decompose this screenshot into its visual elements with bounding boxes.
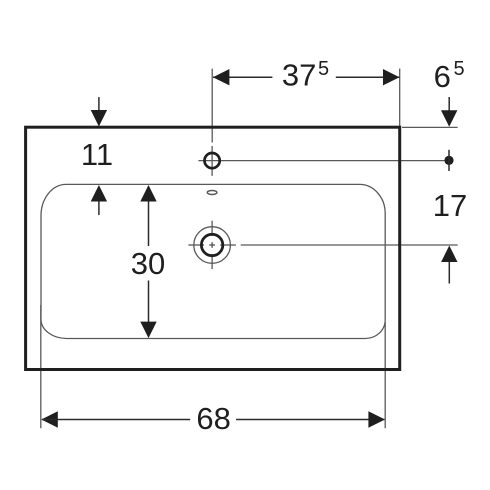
outer rim of washbasin <box>26 127 400 369</box>
dimension 6.5 arrow tail <box>448 97 450 112</box>
dimension 68 left arrowhead <box>41 411 58 427</box>
dimension 68 line left segment <box>42 419 190 421</box>
dimension 30 down arrowhead <box>140 322 156 339</box>
dimension 11 down arrow tail <box>98 97 100 111</box>
dimension 37.5 left arrowhead <box>213 69 230 85</box>
dimension 68 right extension line <box>384 322 386 428</box>
tap hole <box>205 153 220 168</box>
dimension 17 up arrowhead <box>441 246 457 263</box>
svg-text:6: 6 <box>434 59 451 94</box>
svg-text:37: 37 <box>282 57 316 92</box>
dimension 6.5 extension line at rim top edge <box>402 126 458 128</box>
tap hole crosshair vertical <box>211 146 213 176</box>
drain center mark vertical <box>211 221 213 236</box>
drain outer circle <box>194 227 231 264</box>
dimension 37.5 line right segment <box>336 76 400 78</box>
dimension 11 up arrow tail <box>98 202 100 216</box>
dimension 17 arrow tail <box>448 262 450 284</box>
drain ring <box>201 234 222 255</box>
svg-text:68: 68 <box>196 401 230 436</box>
dimension 30 up arrowhead <box>140 185 156 202</box>
dimension 11 up arrowhead <box>91 185 107 202</box>
drain center mark horizontal <box>188 244 204 246</box>
dimension 6.5 down arrowhead <box>441 110 457 127</box>
svg-text:30: 30 <box>131 246 165 281</box>
overflow slot <box>207 191 217 195</box>
dimension 68 left extension line <box>40 305 42 428</box>
dimension 11 down arrowhead <box>91 110 107 127</box>
dimension 37.5 right extension line <box>399 69 401 126</box>
svg-text:11: 11 <box>81 137 113 172</box>
svg-text:5: 5 <box>318 58 329 80</box>
dimension 68 right arrowhead <box>368 411 385 427</box>
svg-text:5: 5 <box>453 58 464 80</box>
dimension 37.5 right arrowhead <box>383 69 400 85</box>
measurement dot tick <box>448 150 450 171</box>
tap hole crosshair horizontal and leader line to right measurement dot <box>198 160 444 162</box>
dimension 30 line lower segment <box>148 281 150 323</box>
dimension 37.5 line left segment <box>213 76 272 78</box>
dimension 30 line upper segment <box>148 202 150 247</box>
dimension 37.5 left extension line <box>211 69 213 143</box>
dimension 68 line right segment <box>236 419 384 421</box>
svg-text:17: 17 <box>433 188 467 223</box>
drain leader line to right dimension 17 <box>241 244 458 246</box>
basin bowl outline <box>41 184 385 338</box>
measurement dot at tap hole level <box>444 156 453 165</box>
